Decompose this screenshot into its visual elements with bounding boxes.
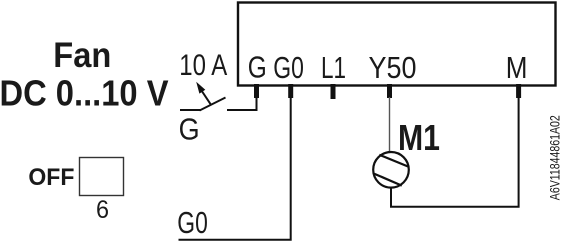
svg-text:10 A: 10 A <box>179 49 227 82</box>
svg-text:M: M <box>506 50 528 85</box>
svg-text:L1: L1 <box>321 50 346 85</box>
svg-text:Fan: Fan <box>53 35 111 75</box>
svg-text:6: 6 <box>96 196 109 224</box>
terminal pin G <box>254 84 259 98</box>
terminal pin L1 <box>331 84 336 99</box>
switch position box <box>80 158 124 196</box>
svg-text:OFF: OFF <box>28 164 74 191</box>
wire Y50 to fan M1 <box>389 97 391 153</box>
wire M1 to terminal M <box>391 97 519 207</box>
terminal pin G0 <box>288 84 293 98</box>
svg-text:G: G <box>179 111 200 146</box>
terminal pin M <box>516 84 521 98</box>
svg-text:A6V11844861A02: A6V11844861A02 <box>547 115 562 200</box>
wire G0 <box>179 97 291 240</box>
fan motor M1 <box>373 152 409 188</box>
switch 10 A <box>180 88 226 111</box>
svg-text:G0: G0 <box>177 205 208 240</box>
svg-text:G0: G0 <box>273 50 304 85</box>
terminal pin Y50 <box>387 84 392 98</box>
svg-text:DC 0...10 V: DC 0...10 V <box>0 72 169 113</box>
svg-text:Y50: Y50 <box>369 50 417 85</box>
svg-text:M1: M1 <box>398 117 440 158</box>
controller unit box <box>238 3 556 86</box>
svg-text:G: G <box>248 50 267 85</box>
wire switch to terminal G <box>227 97 257 110</box>
